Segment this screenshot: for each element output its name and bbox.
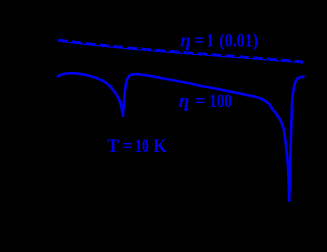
label eta = 1 (0.01) bbox=[180, 31, 258, 52]
label T = 10 K bbox=[107, 136, 167, 157]
curve eta=0.01 (dashed thick, overlapping eta=1) bbox=[58, 40, 303, 62]
svg-text:η: η bbox=[180, 31, 190, 52]
svg-text:T: T bbox=[107, 136, 119, 157]
svg-text:1: 1 bbox=[207, 31, 214, 52]
svg-text:=: = bbox=[194, 31, 205, 52]
svg-text:(0.01): (0.01) bbox=[219, 31, 258, 52]
svg-text:K: K bbox=[153, 136, 166, 157]
svg-text:=: = bbox=[195, 91, 206, 112]
svg-text:η: η bbox=[179, 91, 189, 112]
curve eta=100 (with Fano antiresonance dips) bbox=[58, 73, 304, 201]
svg-text:100: 100 bbox=[209, 91, 232, 112]
label eta = 100 bbox=[179, 91, 232, 112]
svg-text:10: 10 bbox=[135, 136, 149, 157]
svg-text:=: = bbox=[122, 136, 133, 157]
curve eta=1 (solid thin) bbox=[58, 41, 303, 63]
